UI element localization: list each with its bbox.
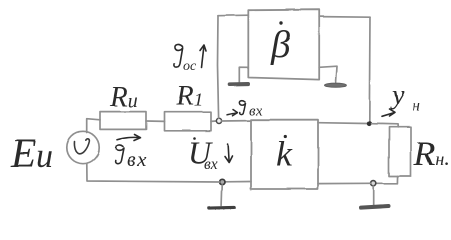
label Jвх with arrow (at input node)	[227, 100, 246, 116]
label Jос with up arrow	[174, 45, 206, 68]
amplifier block K1 (K box)	[251, 120, 318, 189]
label Jвх with vector arrow (source current)	[116, 135, 141, 164]
svg-text:R1: R1	[175, 80, 203, 112]
wire R1 to node A	[211, 120, 216, 122]
svg-text:Rн.: Rн.	[413, 134, 450, 173]
wire K output to load node	[318, 122, 367, 125]
svg-text:вх: вх	[127, 147, 148, 171]
wire feedback to beta input	[218, 14, 248, 17]
svg-text:у: у	[389, 80, 405, 111]
wire ground drop from node C	[372, 186, 374, 205]
resistor Rн	[389, 127, 411, 176]
ground stub under beta left	[239, 67, 248, 82]
wire ground drop from node D	[221, 185, 224, 205]
ground stub under beta right	[319, 66, 337, 83]
wire feedback left vertical	[218, 16, 219, 118]
wire node C to K bottom right	[318, 182, 370, 184]
resistor Rи	[100, 112, 146, 130]
svg-text:Eu: Eu	[10, 130, 53, 176]
wire Rи to R1	[146, 120, 164, 122]
source V1 symbol (nu squiggle)	[74, 139, 89, 154]
svg-text:вх: вх	[249, 103, 263, 119]
ground under node C	[361, 206, 389, 208]
op-amp block B1 (beta box)	[248, 10, 319, 80]
node B (output node, filled)	[367, 121, 372, 126]
node D (bottom input node, ring)	[220, 179, 225, 184]
wire beta output to right vertical	[319, 16, 370, 19]
wire node B to Rн top	[372, 124, 398, 128]
wire source top to Rи	[87, 119, 100, 133]
wire node A to K input	[222, 120, 251, 122]
ground under beta right	[325, 83, 347, 87]
svg-text:k: k	[276, 134, 293, 174]
ground under beta left	[230, 82, 249, 86]
ground under node D	[210, 205, 235, 209]
node A (input node, open circle)	[216, 118, 221, 123]
source V1 (circle)	[67, 131, 99, 163]
wire right feedback vertical	[368, 17, 371, 123]
wire Rн bottom to node C	[376, 176, 398, 183]
svg-text:вх: вх	[204, 156, 218, 173]
svg-text:β: β	[270, 24, 290, 66]
wire node D to source bottom	[87, 163, 220, 182]
svg-text:н: н	[412, 98, 420, 115]
svg-text:ос: ос	[183, 59, 197, 74]
node C (load bottom, ring)	[371, 181, 376, 186]
svg-text:Ru: Ru	[109, 81, 138, 113]
wire K bottom-left to node D	[225, 181, 251, 183]
resistor R1	[164, 112, 211, 131]
